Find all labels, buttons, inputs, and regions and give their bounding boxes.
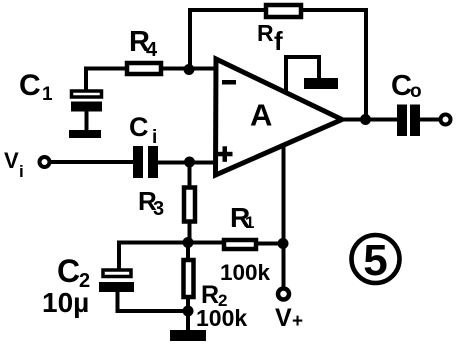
resistor R2 bbox=[184, 260, 194, 297]
wire op-amp to V+ terminal bbox=[282, 145, 286, 288]
svg-text:100k: 100k bbox=[220, 260, 271, 285]
wire op-amp output bbox=[340, 118, 396, 122]
svg-text:10µ: 10µ bbox=[42, 287, 89, 318]
svg-text:C: C bbox=[57, 253, 80, 289]
wire R3 to node C bbox=[188, 222, 192, 243]
node B bbox=[184, 157, 195, 168]
node output bbox=[360, 114, 371, 125]
terminal V+ bbox=[278, 289, 289, 300]
wire node A to op-amp minus input bbox=[161, 67, 216, 71]
op-amp plus sign bbox=[217, 146, 233, 162]
svg-text:1: 1 bbox=[245, 213, 254, 232]
wire R1 to node D bbox=[256, 242, 283, 246]
terminal output bbox=[441, 115, 451, 125]
wire node C horizontal run bbox=[119, 241, 224, 245]
svg-text:i: i bbox=[19, 162, 24, 181]
wire Ci to op-amp plus input bbox=[158, 161, 216, 165]
wire C0 to output terminal bbox=[420, 118, 440, 122]
node D bbox=[278, 238, 289, 249]
wire R4 left to C1 bbox=[86, 69, 127, 90]
node E bbox=[183, 306, 194, 317]
ground (op-amp top) bbox=[286, 57, 338, 92]
svg-text:1: 1 bbox=[42, 84, 53, 105]
ground (C1) bbox=[69, 130, 101, 138]
wire node B to R3 bbox=[188, 162, 192, 187]
resistor R3 bbox=[184, 188, 195, 222]
wire feedback loop top bbox=[190, 10, 366, 120]
terminal Vi bbox=[40, 157, 50, 167]
capacitor C1 bbox=[71, 91, 102, 130]
svg-text:A: A bbox=[250, 98, 272, 133]
wire node C down to C2 bbox=[117, 243, 121, 269]
svg-text:+: + bbox=[292, 311, 303, 332]
capacitor Ci bbox=[133, 146, 158, 178]
svg-text:4: 4 bbox=[146, 39, 158, 61]
resistor R1 bbox=[224, 240, 256, 249]
node A bbox=[184, 64, 195, 75]
svg-text:C: C bbox=[129, 112, 149, 142]
ground (bottom) bbox=[170, 311, 206, 341]
resistor R4 bbox=[127, 63, 161, 74]
svg-text:3: 3 bbox=[153, 198, 164, 220]
capacitor C0 bbox=[397, 105, 420, 137]
svg-text:100k: 100k bbox=[196, 305, 247, 331]
resistor Rf bbox=[266, 5, 301, 17]
op-amp minus sign bbox=[222, 80, 236, 85]
svg-text:5: 5 bbox=[363, 236, 387, 285]
wire Vi to Ci bbox=[50, 160, 133, 164]
node C bbox=[183, 237, 194, 248]
svg-text:i: i bbox=[152, 127, 157, 148]
svg-text:o: o bbox=[410, 81, 422, 102]
wire R2 to node E bbox=[186, 297, 190, 311]
svg-text:V: V bbox=[275, 304, 292, 332]
op-amp A bbox=[216, 59, 343, 175]
svg-text:f: f bbox=[274, 26, 283, 56]
svg-text:C: C bbox=[391, 70, 412, 102]
wire C2 bottom to node E bbox=[118, 292, 189, 311]
svg-text:R: R bbox=[257, 20, 274, 46]
circled figure number 5 bbox=[352, 235, 400, 283]
svg-text:C: C bbox=[19, 69, 41, 102]
svg-text:V: V bbox=[4, 148, 19, 173]
wire node C to R2 bbox=[186, 243, 190, 260]
capacitor C2 bbox=[99, 270, 134, 292]
